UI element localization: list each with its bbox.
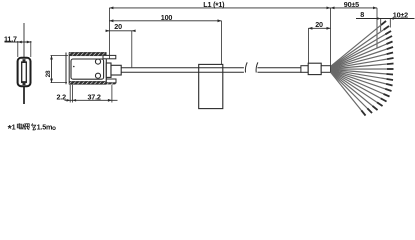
wire W5: [331, 42, 393, 68]
footnote CJK 为: [31, 123, 36, 130]
extension line tip end: [389, 19, 391, 28]
dimension 100 line: [109, 19, 221, 22]
wire W2: [331, 26, 389, 67]
connector side view: top hatched bar: [69, 52, 106, 55]
wire W15: [331, 71, 390, 97]
wire W16: [331, 71, 387, 101]
svg-text:L1 (*1): L1 (*1): [203, 0, 225, 10]
wire W12: [331, 70, 393, 80]
wire W14: [331, 70, 392, 91]
dimension 28 (vertical): [45, 70, 52, 77]
dimension 8 / 10±2 line: [356, 17, 415, 19]
svg-text:20: 20: [114, 22, 122, 31]
connector side view: bottom hatched bar: [69, 81, 106, 84]
extension line at connector datum: [108, 8, 110, 59]
wire W3: [331, 31, 391, 67]
connector side view: left plate: [66, 53, 69, 85]
dimension 11.7 line: [5, 41, 32, 44]
svg-text:1.5m: 1.5m: [37, 123, 53, 132]
pin marker dot: [73, 66, 75, 68]
wire W13: [331, 70, 393, 85]
wire W18: [331, 72, 378, 110]
cable gland wide part: [106, 63, 111, 77]
cable segment 3: [258, 68, 302, 73]
dimension 2.2 and 37.2 extension lines: [70, 85, 112, 103]
svg-text:1: 1: [12, 123, 16, 132]
extension line 90±5 right: [376, 8, 378, 48]
cable break marks: [245, 62, 258, 72]
screw hole lower: [95, 73, 100, 78]
bottom right step: [106, 79, 116, 84]
L1 / 90±5 dimension line: [109, 7, 377, 10]
connector end view slot: [21, 59, 27, 85]
bottom dimension line: [65, 99, 118, 102]
wire W11: [331, 70, 393, 75]
cable segment 1: [121, 68, 244, 73]
dimension 20 (left) line: [106, 30, 136, 33]
wire W8: [331, 58, 394, 69]
wire W7: [331, 53, 393, 69]
dimension 20 (right) line: [308, 27, 330, 30]
top screw protrusion: [103, 55, 116, 58]
extension line tag right: [221, 21, 223, 65]
wire W19: [331, 72, 372, 113]
centerline of end view: [23, 23, 25, 58]
footnote CJK 缆: [23, 124, 29, 130]
wire W10: [331, 68, 394, 70]
connector side view: inner body: [71, 59, 104, 79]
extension line tip start: [380, 19, 382, 32]
svg-text:10±2: 10±2: [393, 10, 408, 19]
extension line 20 right: [131, 31, 133, 68]
svg-text:8: 8: [360, 10, 364, 19]
wire W1: [331, 21, 386, 66]
wire W20: [331, 72, 366, 115]
screw hole upper: [95, 59, 100, 64]
footnote CJK 电: [17, 123, 23, 129]
wire W9: [331, 64, 394, 69]
sleeve boot: [308, 63, 321, 74]
cable gland mid part: [111, 65, 121, 75]
connector end view body: [18, 58, 31, 86]
wire W17: [331, 71, 383, 106]
svg-text:28: 28: [45, 70, 52, 77]
footnote 。: [53, 127, 56, 130]
sleeve end segment: [321, 66, 330, 73]
wire W6: [331, 47, 393, 68]
sleeve small step: [301, 66, 308, 73]
extension line sleeve right / 90±5 left: [330, 8, 332, 66]
extension line sleeve left: [307, 28, 309, 66]
hanging tag: [199, 64, 223, 108]
extension lines 11.7: [18, 41, 31, 57]
wire W4: [331, 36, 392, 67]
connector side view: right edge: [105, 56, 107, 82]
